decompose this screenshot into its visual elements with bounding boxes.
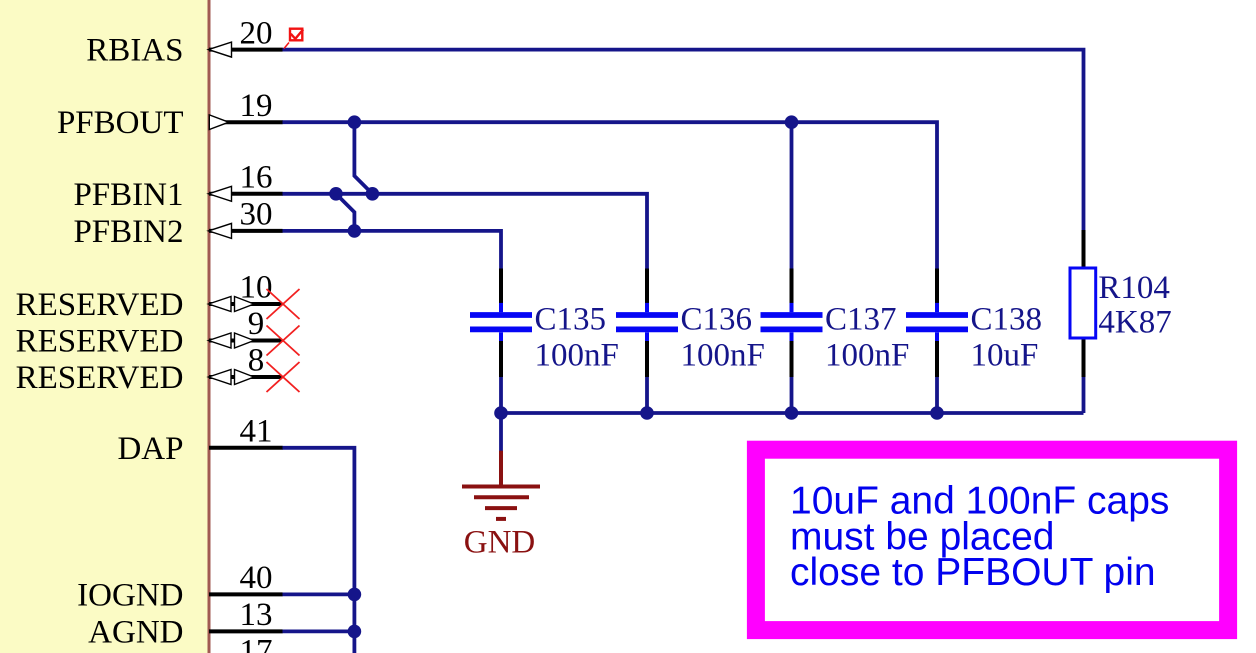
junction dot PFBIN1 left (329, 187, 343, 201)
svg-text:100nF: 100nF (535, 338, 619, 374)
no-ERC marker at pin 20 (284, 29, 303, 49)
svg-text:100nF: 100nF (681, 338, 765, 374)
svg-text:R104: R104 (1098, 270, 1170, 306)
svg-text:C138: C138 (971, 302, 1043, 338)
svg-text:C136: C136 (681, 302, 753, 338)
svg-text:PFBIN2: PFBIN2 (73, 214, 183, 250)
svg-text:C137: C137 (825, 302, 897, 338)
wire net DAP (pin41 down left column) (282, 448, 354, 653)
IC component body (0, 0, 209, 653)
svg-text:16: 16 (240, 160, 273, 196)
svg-text:17: 17 (240, 634, 273, 653)
wire C137 top drop from PFBOUT (790, 122, 794, 269)
wire ground bus (501, 411, 1084, 415)
wire net RBIAS (pin20 to R104 top) (282, 50, 1084, 231)
svg-text:40: 40 (240, 560, 273, 596)
svg-text:GND: GND (464, 525, 536, 561)
svg-text:AGND: AGND (88, 614, 183, 650)
svg-text:10: 10 (240, 270, 273, 306)
wire IOGND pin40 to column (282, 593, 354, 597)
svg-text:PFBIN1: PFBIN1 (73, 177, 183, 213)
junction dot bus at GND/C135 (494, 406, 508, 420)
svg-text:19: 19 (240, 88, 273, 124)
svg-text:C135: C135 (535, 302, 607, 338)
wire jog PFBIN1 to PFBIN2 (336, 194, 354, 231)
ground GND (462, 451, 540, 561)
svg-text:DAP: DAP (117, 431, 183, 467)
svg-text:8: 8 (248, 343, 265, 379)
no-connect X pin 10 (267, 289, 300, 319)
no-connect X pin 8 (267, 362, 300, 392)
no-connect X pin 9 (267, 326, 300, 356)
junction dot IOGND (348, 588, 362, 602)
pin DAP 41 (117, 414, 282, 467)
pin RESERVED 9 (16, 306, 282, 359)
resistor R104 (1070, 230, 1172, 377)
pin IOGND 40 (77, 560, 282, 613)
junction dot bus at C137 (785, 406, 799, 420)
svg-text:4K87: 4K87 (1098, 305, 1171, 341)
note box: placement instruction (756, 450, 1228, 630)
wire GND stub from bus (499, 413, 503, 452)
wire jog PFBOUT to PFBIN1 (354, 122, 372, 194)
wire net PFBOUT (pin19 across to C138 top) (282, 122, 937, 269)
pin PFBOUT 19 (57, 88, 283, 141)
svg-text:13: 13 (240, 597, 273, 633)
svg-text:30: 30 (240, 197, 273, 233)
svg-text:close to PFBOUT pin: close to PFBOUT pin (790, 551, 1156, 594)
pin AGND 13 (88, 597, 282, 650)
pin PFBIN1 16 (73, 160, 282, 213)
pin RESERVED 8 (16, 343, 282, 396)
junction dot bus at C138 (930, 406, 944, 420)
capacitor C136 (616, 269, 765, 378)
wire net PFBIN2 (pin30 to C135 top) (282, 231, 501, 269)
svg-text:100nF: 100nF (825, 338, 909, 374)
pin RESERVED 10 (16, 270, 282, 323)
junction dot AGND (348, 625, 362, 639)
capacitor C137 (761, 269, 910, 378)
svg-text:20: 20 (240, 15, 273, 51)
junction dot bus at C136 (640, 406, 654, 420)
capacitor C135 (470, 269, 619, 378)
svg-text:10uF: 10uF (971, 338, 1039, 374)
svg-text:41: 41 (240, 414, 273, 450)
svg-text:RBIAS: RBIAS (86, 33, 183, 69)
svg-text:RESERVED: RESERVED (16, 324, 184, 360)
capacitor C138 (906, 269, 1042, 378)
wire R104 bottom to bus (1082, 376, 1086, 413)
wire C135 bottom to bus (499, 376, 503, 413)
wire net PFBIN1 (pin16 to C136 top) (282, 194, 647, 269)
svg-text:RESERVED: RESERVED (16, 287, 184, 323)
pin PFBIN2 30 (73, 197, 282, 250)
svg-text:PFBOUT: PFBOUT (57, 105, 184, 141)
wire AGND pin13 to column (282, 630, 354, 634)
pin RBIAS 20 (86, 15, 282, 68)
junction dot PFBOUT jog (348, 115, 362, 129)
svg-text:9: 9 (248, 306, 265, 342)
junction dot PFBIN2 (348, 224, 362, 238)
svg-text:RESERVED: RESERVED (16, 360, 184, 396)
junction dot PFBIN1 right (366, 187, 380, 201)
junction dot C137 top (785, 115, 799, 129)
wire C137 bottom to bus (790, 376, 794, 413)
wire C136 bottom to bus (645, 376, 649, 413)
wire C138 bottom to bus (935, 376, 939, 413)
svg-text:IOGND: IOGND (77, 577, 183, 613)
